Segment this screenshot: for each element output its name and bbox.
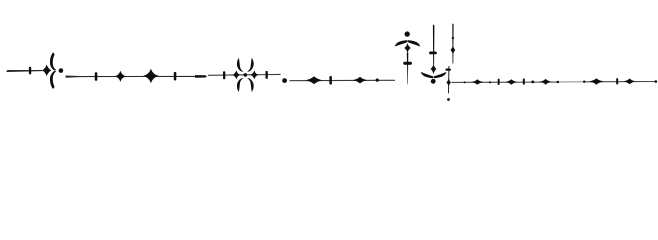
node dot D1 xyxy=(59,68,64,73)
tick E7 xyxy=(616,78,618,84)
node square xyxy=(489,81,491,83)
ornament ORN upper-left leaf xyxy=(237,58,243,72)
flat star E1 xyxy=(471,79,483,85)
ornament F1 diamond xyxy=(42,65,51,77)
wire xyxy=(208,74,281,76)
vertical wire V2 xyxy=(433,24,435,64)
ornament ORN center dot xyxy=(244,73,248,77)
tick on V4 xyxy=(445,69,451,71)
tick T4 xyxy=(223,71,225,79)
star diamond DM1 xyxy=(115,71,126,82)
flat star E6 xyxy=(589,78,604,84)
wire end blob xyxy=(195,75,207,78)
flat star FD2 xyxy=(353,77,367,84)
ornament ORN upper-right leaf xyxy=(247,58,253,72)
wire xyxy=(6,70,42,72)
tick E2 xyxy=(498,79,500,85)
tick E4 xyxy=(523,79,525,85)
ornament V3 diamond xyxy=(431,64,437,74)
wire xyxy=(66,76,197,78)
node dot D2 xyxy=(282,78,287,83)
star diamond on V4 xyxy=(451,46,456,54)
tick on V1 stem xyxy=(403,62,412,65)
ornament V1 left wing xyxy=(395,40,408,46)
flat star E5 xyxy=(540,79,552,85)
node dot D3 xyxy=(376,79,379,82)
tick T3 xyxy=(174,72,177,81)
ornament V3 right wing xyxy=(434,72,447,78)
wire xyxy=(290,80,396,82)
wire xyxy=(452,82,559,83)
flat star FD1 xyxy=(306,76,323,84)
flat star E8 xyxy=(623,79,635,85)
ornament V1 top dot xyxy=(405,31,410,36)
end dot xyxy=(655,80,658,83)
ornament V1 stem xyxy=(407,53,409,85)
wire xyxy=(584,81,656,82)
ornament ORN lower-left leaf xyxy=(237,78,243,92)
node dot xyxy=(531,81,534,84)
junction diamond xyxy=(446,79,451,87)
junction bottom dot xyxy=(447,98,450,101)
ornament ORN lower-right leaf xyxy=(247,78,253,92)
star diamond DM2 xyxy=(143,69,158,83)
vertical wire V4 upper xyxy=(452,23,453,63)
node square xyxy=(464,82,466,84)
ornament ORN right diamond xyxy=(250,70,258,79)
ornament V1 diamond xyxy=(404,43,411,53)
tick T5 xyxy=(266,71,268,79)
ornament V1 right wing xyxy=(408,40,421,46)
tick T2 xyxy=(95,72,98,81)
tick T1 xyxy=(29,67,31,75)
ornament V3 left wing xyxy=(421,72,434,78)
tick on V2 xyxy=(429,52,437,55)
ornament ORN left diamond xyxy=(232,70,240,79)
node square xyxy=(557,81,559,83)
tick T6 xyxy=(329,76,332,85)
wire (faint) xyxy=(558,81,584,82)
flat star E3 xyxy=(506,79,518,84)
vertical wire V4 lower xyxy=(448,66,449,93)
ornament F1 lower leaf xyxy=(50,71,56,89)
ornament V3 bottom dot xyxy=(431,79,436,84)
node dot xyxy=(583,81,585,83)
ornament F1 upper leaf xyxy=(50,52,56,70)
small dot on V4 xyxy=(452,37,454,39)
